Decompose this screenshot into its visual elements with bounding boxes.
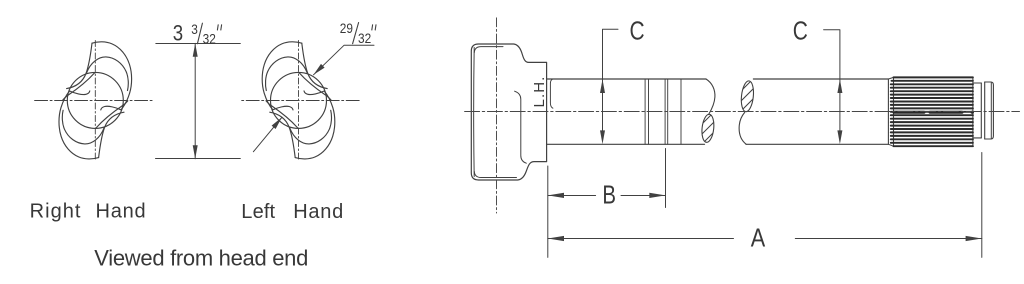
dim 3-3/32 fraction slash: [197, 23, 202, 44]
shaft fillet runout at head: [550, 79, 553, 108]
shaft segment 1 bottom edge: [547, 143, 705, 145]
dim 3-3/32 top extension line: [156, 43, 241, 45]
dimension C2 up arrowhead: [837, 79, 842, 93]
dim 3-3/32 up arrowhead: [193, 43, 198, 56]
svg-text:32: 32: [203, 31, 216, 47]
leader arrowhead lower: [272, 117, 282, 129]
svg-text:C: C: [630, 17, 645, 45]
svg-text:3: 3: [173, 22, 183, 46]
shaft segment 1 top edge: [547, 78, 706, 80]
dim 3-3/32 vertical dimension line: [194, 43, 196, 158]
svg-text:A: A: [751, 225, 766, 253]
svg-text:L.H.: L.H.: [531, 76, 548, 108]
dimension B right extension line: [665, 149, 667, 208]
label 29/32 text: [340, 20, 371, 46]
head plate inner line left: [473, 48, 476, 177]
break 1 hatching: [696, 110, 724, 156]
label 29/32 fraction slash: [353, 23, 359, 44]
spline teeth: [891, 77, 973, 146]
snap ring groove lines: [981, 82, 984, 139]
leader arrowhead upper: [314, 64, 325, 75]
break 1 upper curve: [706, 79, 715, 115]
break 1 section ellipse: [701, 114, 715, 143]
leader line to lower lobe: [253, 117, 282, 151]
shaft horizontal centerline: [465, 111, 1020, 113]
dimension B line: [548, 195, 666, 197]
dim 3-3/32 bottom extension line: [156, 158, 241, 160]
svg-text:Hand: Hand: [96, 200, 147, 222]
svg-text:32: 32: [358, 30, 371, 46]
spline shoulder line: [887, 79, 889, 144]
dim 3-3/32 text: [173, 21, 216, 46]
svg-text:29: 29: [340, 20, 353, 36]
dimension C1 down arrowhead: [600, 130, 605, 144]
spline start line: [893, 77, 895, 146]
svg-text:Viewed from head end: Viewed from head end: [94, 246, 308, 271]
end ring outline: [985, 82, 994, 139]
dimension C1 up arrowhead: [600, 79, 605, 93]
break 2 lower curve: [739, 113, 746, 145]
head vertical centerline: [496, 18, 498, 213]
dimension A left arrowhead: [548, 236, 564, 241]
end cylinder top edge: [973, 83, 981, 138]
svg-text:3: 3: [191, 21, 198, 37]
svg-text:Hand: Hand: [293, 201, 344, 223]
dimension C2 line: [824, 30, 840, 141]
head plate inner line bottom: [474, 172, 516, 178]
head plate inner line top: [474, 47, 503, 53]
dimension A right arrowhead: [966, 236, 982, 241]
label 29/32 inch marks: [372, 25, 376, 30]
dimension C1 line: [603, 29, 619, 141]
dimension A line: [548, 238, 982, 240]
break 2 hatching: [736, 74, 764, 122]
dim 3-3/32 down arrowhead: [193, 145, 198, 158]
svg-text:Right: Right: [30, 200, 82, 222]
break 2 section ellipse: [740, 80, 755, 112]
svg-text:Left: Left: [241, 201, 275, 223]
dimension B right arrowhead: [649, 193, 665, 198]
left-hand cam head-end view (mirrored): [240, 41, 359, 160]
dimension B left arrowhead: [548, 193, 564, 198]
shaft segment 2 bottom edge: [746, 143, 888, 145]
dim 3-3/32 inch marks: [217, 25, 221, 30]
end ring chamfer line: [990, 82, 992, 138]
svg-text:C: C: [793, 17, 808, 45]
head neck line: [515, 91, 527, 163]
spline pitch band: [894, 111, 973, 114]
camshaft head outline (side view): [471, 44, 546, 180]
dimension C2 down arrowhead: [837, 130, 842, 144]
right-hand cam head-end view: [35, 41, 154, 160]
bearing groove lines: [645, 79, 681, 144]
shaft segment 2 top edge: [753, 78, 888, 80]
svg-text:B: B: [602, 181, 616, 210]
spline chamfer edges: [888, 77, 893, 146]
spline end line: [972, 77, 974, 146]
leader line to upper lobe: [314, 45, 375, 75]
dimension A B left extension line: [547, 166, 549, 257]
dimension A right extension line: [981, 153, 983, 258]
